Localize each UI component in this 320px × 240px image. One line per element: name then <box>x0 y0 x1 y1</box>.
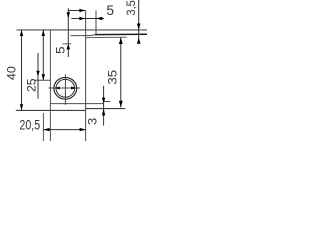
dim 20,5 arrow right <box>80 128 86 131</box>
svg-text:3,5: 3,5 <box>125 0 138 15</box>
dim 35 arrow up tip y=37.4 <box>119 38 123 45</box>
part left vertical edge <box>49 30 51 141</box>
dimension 40 line <box>21 30 23 110</box>
lower sheet top edge (line M right, thick) <box>95 33 147 35</box>
svg-text:20,5: 20,5 <box>19 117 40 132</box>
svg-text:3: 3 <box>87 118 99 125</box>
bent dimension horizontal y=10.5 <box>68 10 85 12</box>
dim 25 arrow down <box>42 74 45 80</box>
svg-text:25: 25 <box>25 78 38 92</box>
dimension 25 line <box>42 30 44 80</box>
svg-text:35: 35 <box>106 70 119 85</box>
dim 35 arrow down tip y=110 <box>119 101 123 108</box>
extension line x=85.6 (long vertical) <box>85 11 87 142</box>
dimension 3,5 vertical x=138.7 <box>138 0 140 44</box>
svg-text:5: 5 <box>107 3 115 18</box>
dim 5 arrow pointing right at x=85.4 <box>79 17 85 20</box>
part bottom edge right <box>86 108 125 110</box>
extension line x=43.4 lower <box>42 113 44 141</box>
svg-text:5: 5 <box>55 46 67 54</box>
dim 5 arrow pointing left at x=96.2 <box>96 17 102 20</box>
diameter arrow left <box>54 87 59 90</box>
bent dim arrow down tip y=18.4 <box>67 12 70 18</box>
step edge short segment right of x=103.6 <box>104 101 111 103</box>
part bottom edge left <box>16 109 86 111</box>
bent dim arrow up tip y=43.7 <box>67 44 71 50</box>
vertical centerline <box>64 74 66 105</box>
dim 40 arrow down <box>20 104 23 110</box>
dimension 35 vertical x=120.8 <box>120 37 122 107</box>
dim 3,5 arrow down tip y=29.9 <box>137 24 141 30</box>
dimension line x=38 (to circle top tangent) <box>37 53 39 99</box>
shoulder extension line y=79.9 <box>34 79 50 81</box>
dim 25 arrow up <box>42 30 45 36</box>
step edge above bottom (line1) <box>50 103 103 105</box>
extension line y=43.8 <box>62 43 71 45</box>
diameter arrow right <box>71 87 76 90</box>
dimension 20,5 line <box>43 129 85 131</box>
bent dim arrow right at x=85.4 <box>79 9 85 12</box>
dim 40 arrow up <box>20 30 23 36</box>
svg-text:40: 40 <box>5 66 18 80</box>
dim 3,5 arrow up tip y=37.4 <box>137 37 141 43</box>
dimension 5 (top) line <box>71 18 104 20</box>
hole inner circle <box>56 79 75 97</box>
dim 20,5 arrow left <box>43 128 49 131</box>
horizontal centerline / diameter dim line <box>49 87 81 89</box>
hole outer circle <box>54 77 77 99</box>
dim 3 line x=103.6 <box>103 86 105 126</box>
dim 3 down arrow tip at line1 <box>102 98 105 104</box>
part joggled edge (line M left + ramp) <box>71 34 96 37</box>
lower sheet bottom edge (line B) <box>86 36 127 38</box>
dim 3 up arrow tip at bottom edge <box>102 109 105 116</box>
bent dimension vertical x=68.3 <box>67 8 69 57</box>
part top edge (line T) <box>17 29 148 31</box>
extension line x=96 (short vertical) <box>95 11 97 35</box>
down arrow at circle top tangent <box>36 71 39 77</box>
